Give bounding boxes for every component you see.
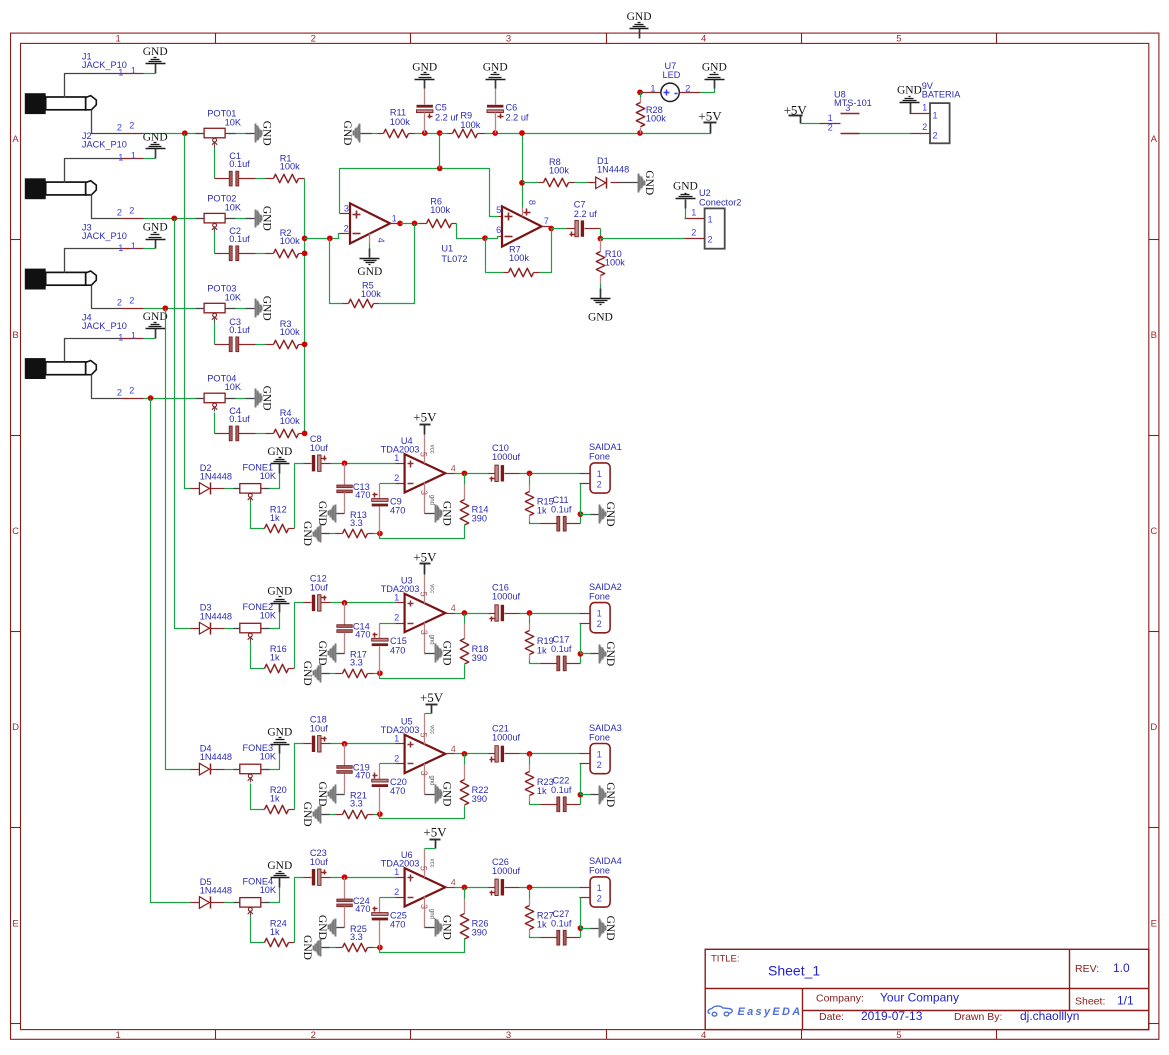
svg-text:C5: C5 (435, 102, 447, 112)
svg-text:MTS-101: MTS-101 (834, 98, 872, 108)
svg-text:EasyEDA: EasyEDA (738, 1006, 803, 1018)
junction LED/R28 (637, 89, 643, 95)
junction ground node (578, 792, 584, 798)
svg-text:1k: 1k (270, 653, 280, 663)
ground above FONE3 (279, 745, 281, 754)
wire (236, 133, 246, 135)
svg-text:5: 5 (896, 1030, 901, 1041)
svg-text:GND: GND (316, 641, 328, 666)
wire (305, 234, 340, 239)
svg-text:SAIDA1: SAIDA1 (589, 442, 622, 452)
wire (552, 228, 567, 230)
wire (214, 148, 216, 179)
wire (214, 323, 216, 345)
wire (256, 344, 266, 346)
ground at SAIDA2 (591, 653, 599, 655)
wire (455, 613, 489, 615)
junction output node 2 (527, 751, 533, 757)
diode D2 1N4448 (191, 488, 200, 490)
svg-text:100k: 100k (509, 253, 529, 263)
svg-text:2: 2 (129, 296, 134, 306)
svg-text:2: 2 (129, 121, 134, 131)
pin 2 of battery (911, 133, 931, 135)
svg-text:1: 1 (933, 110, 938, 120)
svg-text:1N4448: 1N4448 (200, 886, 232, 896)
svg-text:1: 1 (118, 153, 123, 163)
svg-text:5: 5 (419, 592, 429, 597)
svg-text:Fone: Fone (589, 591, 610, 601)
pin 4 of U5 (446, 753, 455, 755)
svg-text:SAIDA3: SAIDA3 (589, 723, 622, 733)
svg-text:2.2 uf: 2.2 uf (435, 112, 458, 122)
svg-text:GND: GND (341, 121, 353, 146)
svg-text:2019-07-13: 2019-07-13 (861, 1009, 923, 1023)
svg-text:100k: 100k (549, 165, 569, 175)
potentiometer POT04 10K (196, 398, 205, 400)
wire (380, 623, 396, 625)
resistor R11 100k (378, 133, 384, 135)
svg-text:GND: GND (604, 641, 616, 666)
wire (464, 754, 466, 765)
wire (270, 474, 280, 489)
svg-text:2: 2 (117, 298, 122, 308)
svg-text:vcc: vcc (428, 725, 434, 734)
svg-text:2: 2 (117, 123, 122, 133)
potentiometer FONE2 10K (234, 628, 240, 630)
op-amp U1A TL072 (340, 233, 351, 235)
ground above C6 (495, 80, 497, 89)
svg-text:2: 2 (597, 760, 602, 770)
svg-text:1: 1 (392, 214, 397, 224)
wire (380, 483, 396, 485)
junction input node (342, 600, 348, 606)
svg-text:100k: 100k (280, 327, 300, 337)
wire (580, 929, 582, 938)
svg-text:E: E (12, 918, 18, 929)
svg-text:0.1uf: 0.1uf (551, 644, 572, 654)
wire (529, 888, 531, 899)
svg-text:GND: GND (143, 311, 168, 323)
junction on J4 pin 2 net (148, 395, 154, 401)
wire (520, 887, 580, 889)
wire (331, 602, 396, 604)
svg-text:GND: GND (143, 222, 168, 234)
svg-text:GND: GND (897, 84, 922, 96)
wire (575, 182, 588, 184)
wire (529, 614, 531, 624)
wire (225, 902, 234, 904)
wire (330, 533, 336, 535)
svg-text:10K: 10K (225, 117, 242, 127)
svg-text:3: 3 (419, 771, 429, 776)
pin 5 (vcc) of U6 (424, 849, 426, 878)
wire (270, 613, 280, 629)
junction on J3 pin 2 net (162, 305, 168, 311)
+5V net flag at U5 (431, 705, 433, 714)
svg-text:GND: GND (267, 586, 292, 598)
junction on J1 pin 2 net (182, 130, 188, 136)
jack J1 JACK_P10 (25, 74, 144, 134)
wire (295, 744, 304, 810)
svg-text:390: 390 (472, 794, 487, 804)
svg-text:3: 3 (419, 904, 429, 909)
wire (701, 89, 715, 93)
wire SAIDA1 pin 2 to ground node (580, 483, 591, 485)
+5V net flag at U6 (435, 840, 437, 849)
wire (640, 93, 642, 98)
svg-text:1.0: 1.0 (1113, 961, 1130, 975)
svg-text:GND: GND (673, 181, 698, 193)
wire (520, 613, 580, 615)
svg-text:B: B (1151, 330, 1157, 341)
svg-text:2: 2 (597, 619, 602, 629)
capacitor C13 470 (344, 464, 346, 485)
wire (251, 917, 264, 943)
svg-text:Company:: Company: (816, 993, 864, 1005)
svg-text:100k: 100k (430, 205, 450, 215)
svg-text:1: 1 (118, 332, 123, 342)
svg-text:10K: 10K (260, 752, 277, 762)
wire (457, 224, 486, 239)
svg-text:gnd: gnd (428, 775, 434, 785)
pin 2 of U2 (685, 238, 705, 240)
resistor R21 3.3 (336, 814, 343, 816)
svg-text:0.1uf: 0.1uf (551, 785, 572, 795)
junction U1B output (548, 226, 554, 232)
capacitor C3 0.1uf (215, 344, 230, 346)
wire (380, 939, 465, 953)
svg-text:1: 1 (708, 214, 713, 224)
svg-text:470: 470 (355, 630, 370, 640)
wire (304, 179, 306, 434)
svg-text:GND: GND (143, 46, 168, 58)
svg-text:+5V: +5V (420, 690, 444, 705)
+5V net flag at U4 (424, 425, 426, 435)
wire SAIDA4 pin 2 to ground node (580, 897, 591, 899)
ground at battery pin 1 (910, 103, 912, 114)
svg-text:Drawn By:: Drawn By: (954, 1011, 1002, 1023)
svg-text:+5V: +5V (423, 824, 447, 839)
junction feedback tap (327, 235, 333, 241)
svg-text:GND: GND (267, 727, 292, 739)
svg-text:1: 1 (394, 453, 399, 463)
wire SAIDA3 pin 2 to ground node (580, 763, 591, 765)
junction input node (342, 460, 348, 466)
title block (705, 949, 1149, 1029)
ground at SAIDA4 (591, 928, 599, 930)
svg-text:Sheet:: Sheet: (1075, 996, 1105, 1008)
capacitor C24 470 (344, 878, 346, 899)
potentiometer POT01 10K (196, 133, 205, 135)
junction bias net (437, 165, 443, 171)
ground above C5 (424, 80, 426, 89)
resistor R1 100k (266, 178, 274, 180)
resistor R4 100k (266, 433, 274, 435)
svg-text:1N4448: 1N4448 (200, 752, 232, 762)
svg-text:2: 2 (394, 613, 399, 623)
svg-text:JACK_P10: JACK_P10 (82, 231, 127, 241)
resistor R24 1k (264, 942, 265, 944)
op-amp U3 TDA2003 (396, 602, 405, 604)
junction pin8/R8 (519, 180, 525, 186)
svg-text:5: 5 (419, 866, 429, 871)
capacitor C25 470 (379, 898, 381, 913)
wire (144, 308, 196, 310)
potentiometer POT02 10K (196, 218, 205, 220)
wire (374, 814, 380, 816)
svg-text:R9: R9 (460, 111, 472, 121)
junction output/R390 (462, 610, 468, 616)
svg-text:GND: GND (604, 916, 616, 941)
wire (530, 661, 541, 664)
svg-text:2.2 uf: 2.2 uf (506, 112, 529, 122)
svg-text:0.1uf: 0.1uf (551, 918, 572, 928)
svg-text:10uf: 10uf (310, 443, 328, 453)
wire (270, 888, 280, 903)
svg-text:GND: GND (260, 296, 272, 321)
svg-text:2: 2 (394, 473, 399, 483)
svg-text:100k: 100k (280, 161, 300, 171)
svg-text:3: 3 (506, 33, 511, 44)
wire (330, 947, 336, 949)
jack J4 JACK_P10 (25, 339, 144, 399)
svg-text:10K: 10K (225, 292, 242, 302)
svg-text:2: 2 (922, 122, 927, 132)
svg-text:2: 2 (933, 131, 938, 141)
wire (464, 888, 466, 899)
led U7 (641, 92, 661, 94)
wire (486, 237, 500, 239)
junction on J2 pin 2 net (171, 215, 177, 221)
wire (144, 338, 156, 340)
svg-text:1: 1 (650, 83, 655, 93)
wire (144, 73, 156, 75)
capacitor C11 0.1uf (541, 523, 557, 525)
junction ground node (578, 651, 584, 657)
svg-text:GND: GND (260, 386, 272, 411)
svg-text:Date:: Date: (819, 1011, 844, 1023)
svg-text:100k: 100k (280, 416, 300, 426)
svg-text:GND: GND (440, 915, 452, 940)
wire (530, 936, 541, 938)
wire (401, 223, 420, 225)
junction output/R390 (462, 884, 468, 890)
svg-text:5: 5 (419, 732, 429, 737)
svg-text:2: 2 (394, 754, 399, 764)
svg-text:GND: GND (301, 802, 313, 827)
diode D1 1N4448 (588, 182, 596, 184)
ground at U3 pin 3 (425, 653, 435, 655)
wire (144, 218, 196, 220)
connector SAIDA3 Fone (580, 753, 591, 755)
wire (380, 806, 465, 819)
capacitor C5 2.2 uf (424, 89, 426, 105)
svg-text:+5V: +5V (698, 108, 722, 123)
wire (600, 284, 602, 289)
svg-text:1: 1 (691, 208, 696, 218)
svg-text:1: 1 (118, 67, 123, 77)
wire (236, 218, 246, 220)
wire (580, 515, 582, 524)
junction output/R390 (462, 751, 468, 757)
svg-text:gnd: gnd (428, 495, 434, 505)
capacitor C22 0.1uf (541, 804, 557, 806)
svg-text:JACK_P10: JACK_P10 (82, 140, 127, 150)
junction C6/rail (492, 130, 498, 136)
wire (529, 474, 531, 485)
svg-text:JACK_P10: JACK_P10 (82, 321, 127, 331)
svg-text:C: C (1150, 526, 1157, 537)
wire (225, 488, 234, 490)
wire (415, 133, 440, 135)
wire (330, 814, 336, 816)
wire (369, 244, 371, 249)
wire (440, 133, 448, 135)
svg-text:100k: 100k (646, 114, 666, 124)
svg-text:1: 1 (394, 867, 399, 877)
svg-text:1k: 1k (537, 920, 547, 930)
svg-text:5: 5 (496, 205, 501, 215)
wire (601, 238, 685, 240)
svg-text:2.2 uf: 2.2 uf (574, 209, 597, 219)
capacitor C20 470 (379, 764, 381, 780)
ground at U5 pin 3 (425, 794, 435, 796)
pin 4 of U6 (446, 887, 455, 889)
junction R25/C25 (377, 945, 383, 951)
capacitor C1 0.1uf (215, 178, 230, 180)
wire (331, 743, 396, 745)
capacitor C2 0.1uf (215, 253, 230, 255)
resistor R25 3.3 (336, 947, 343, 949)
svg-text:3.3: 3.3 (350, 799, 363, 809)
wire (522, 134, 524, 208)
svg-text:470: 470 (390, 645, 405, 655)
svg-text:5: 5 (419, 452, 429, 457)
capacitor C10 1000uf (489, 473, 495, 475)
svg-text:+5V: +5V (413, 410, 437, 425)
svg-text:Fone: Fone (589, 452, 610, 462)
battery 9V BATERIA (930, 103, 950, 143)
svg-text:Your Company: Your Company (880, 991, 959, 1005)
ground at POT01 (255, 124, 257, 143)
wire (225, 628, 234, 630)
wire SAIDA2 pin 2 to ground node (580, 623, 591, 625)
svg-text:GND: GND (604, 782, 616, 807)
wire (256, 433, 266, 435)
capacitor C23 10uf (304, 877, 312, 879)
resistor R17 3.3 (336, 673, 343, 675)
capacitor C14 470 (344, 603, 346, 625)
+5V net flag at U3 (424, 564, 426, 575)
svg-text:GND: GND (643, 170, 655, 195)
capacitor C19 470 (344, 744, 346, 766)
resistor R2 100k (266, 253, 274, 255)
potentiometer FONE3 10K (234, 769, 240, 771)
svg-text:1: 1 (394, 734, 399, 744)
op-amp U1B TL072 (500, 236, 503, 238)
svg-text:GND: GND (260, 121, 272, 146)
svg-text:5: 5 (896, 33, 901, 44)
svg-text:1: 1 (394, 593, 399, 603)
wire (144, 398, 196, 400)
wire (523, 182, 539, 184)
ground at C14 (337, 653, 345, 655)
svg-text:GND: GND (702, 62, 727, 74)
resistor R3 100k (266, 344, 274, 346)
wire (166, 309, 191, 770)
wire (330, 673, 336, 675)
wire (581, 764, 591, 795)
svg-text:1000uf: 1000uf (492, 452, 521, 462)
svg-text:1/1: 1/1 (1117, 994, 1134, 1008)
svg-text:4: 4 (451, 744, 456, 754)
svg-text:GND: GND (440, 501, 452, 526)
wire (685, 209, 686, 219)
svg-text:1k: 1k (537, 645, 547, 655)
svg-text:2: 2 (344, 224, 349, 234)
svg-text:1000uf: 1000uf (492, 592, 521, 602)
wire (331, 877, 396, 879)
junction R21/C20 (377, 811, 383, 817)
svg-text:3.3: 3.3 (350, 658, 363, 668)
wire (455, 473, 489, 475)
wire (270, 754, 280, 770)
wire (295, 878, 304, 943)
svg-text:1000uf: 1000uf (492, 733, 521, 743)
ground at R11 left (359, 124, 361, 143)
wire (374, 673, 380, 675)
svg-text:REV:: REV: (1075, 963, 1099, 975)
ground at D1 cathode (619, 182, 638, 184)
svg-text:C: C (12, 526, 19, 537)
svg-text:2: 2 (311, 1030, 316, 1041)
svg-text:4: 4 (376, 238, 386, 243)
svg-text:2: 2 (117, 388, 122, 398)
ground above FONE2 (279, 604, 281, 613)
svg-text:GND: GND (604, 502, 616, 527)
svg-text:3: 3 (344, 203, 349, 213)
wire (236, 398, 246, 400)
svg-text:390: 390 (472, 653, 487, 663)
wire (464, 474, 466, 485)
svg-text:1: 1 (118, 243, 123, 253)
svg-text:1k: 1k (537, 786, 547, 796)
svg-text:1: 1 (131, 151, 136, 161)
svg-text:10uf: 10uf (310, 724, 328, 734)
resistor R10 100k (600, 239, 602, 252)
svg-text:1: 1 (597, 469, 602, 479)
svg-text:1: 1 (597, 609, 602, 619)
svg-text:GND: GND (316, 501, 328, 526)
svg-text:GND: GND (301, 521, 313, 546)
connector U2 Conector2 (705, 208, 725, 248)
junction output node 2 (527, 610, 533, 616)
svg-text:Fone: Fone (589, 732, 610, 742)
wire (439, 134, 441, 169)
switch U8 MTS-101 (820, 123, 841, 125)
wire (581, 484, 591, 515)
wire (372, 133, 378, 135)
svg-text:TITLE:: TITLE: (711, 954, 740, 965)
svg-text:2: 2 (597, 893, 602, 903)
svg-text:6: 6 (496, 225, 501, 235)
resistor R8 100k (539, 182, 544, 184)
potentiometer POT03 10K (196, 308, 205, 310)
svg-text:4: 4 (451, 603, 456, 613)
resistor R13 3.3 (336, 533, 343, 535)
wire (529, 754, 531, 765)
pin 1 of U2 (685, 218, 705, 220)
